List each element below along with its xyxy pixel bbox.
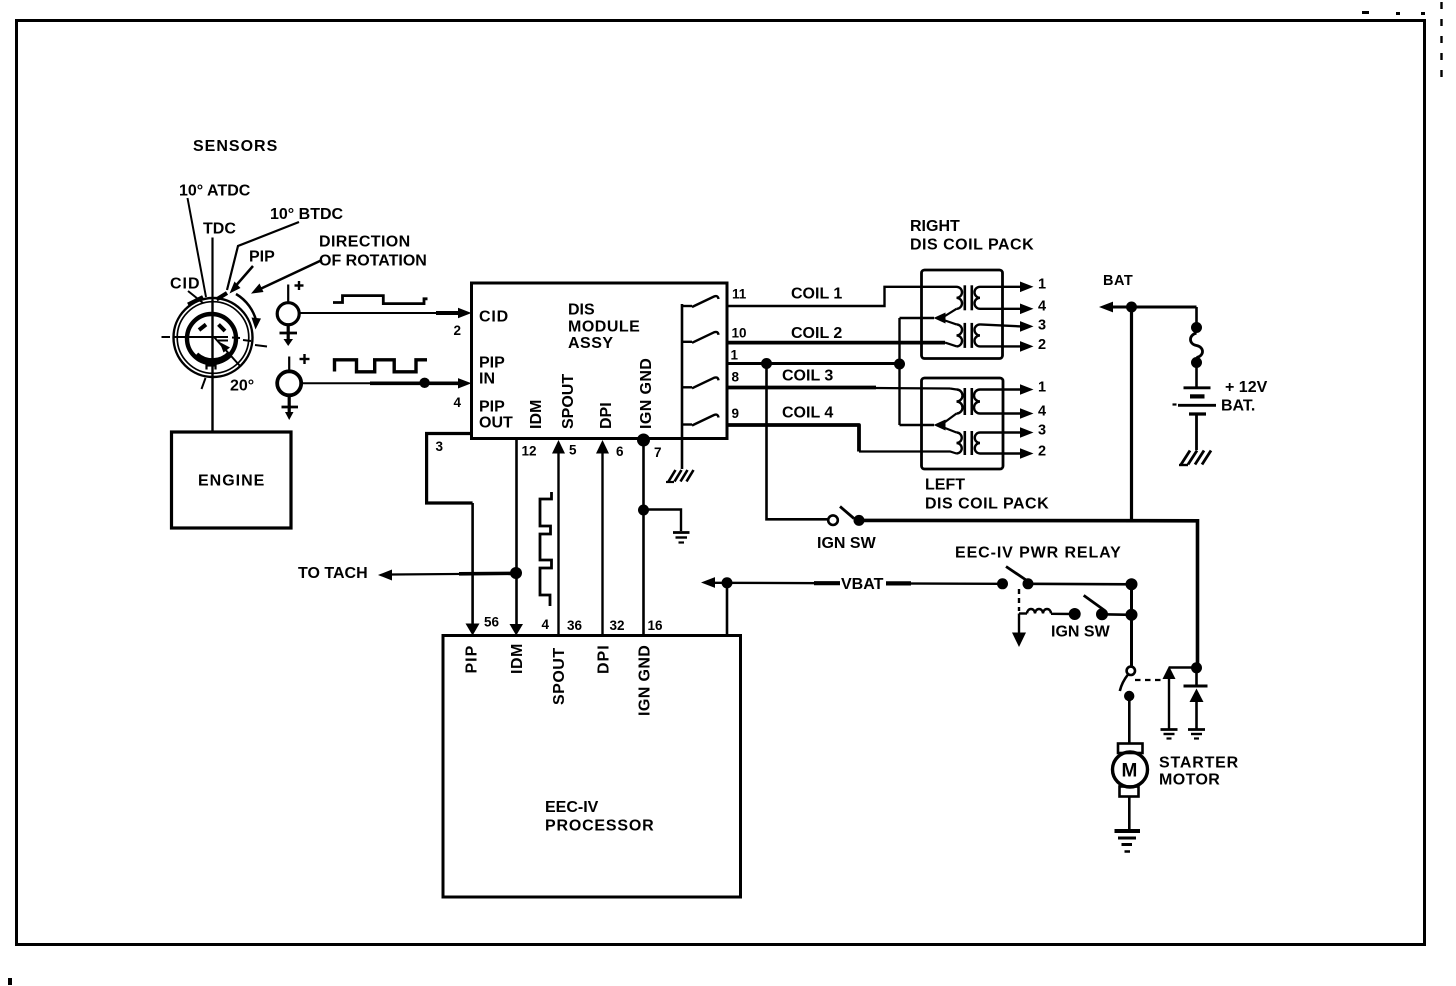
svg-text:2: 2 xyxy=(454,323,462,338)
wire IGN GND to EEC pin 16 xyxy=(642,440,645,636)
svg-text:DPI: DPI xyxy=(596,644,613,674)
pin 4 label xyxy=(454,395,462,410)
module internal driver bus xyxy=(681,304,684,469)
driver switch coil1 xyxy=(682,296,719,307)
junction VBAT/battery riser xyxy=(1126,578,1138,590)
label IGN SW 2 xyxy=(1051,624,1111,641)
label PIP xyxy=(249,249,275,266)
driver switch coil4 xyxy=(682,415,719,426)
wire common to ignition switch xyxy=(767,364,829,520)
label VBAT xyxy=(814,574,911,593)
pin 56 label xyxy=(484,615,500,630)
junction pin1/ignsw xyxy=(761,358,772,369)
pin 32 label xyxy=(610,618,625,633)
ignition switch SW1 xyxy=(828,507,864,526)
solenoid arrow xyxy=(1163,666,1197,729)
right DIS coil pack box xyxy=(922,270,1003,359)
wire switch to starter motor xyxy=(1128,696,1131,744)
left DIS coil pack box xyxy=(922,378,1004,469)
svg-text:COIL 1: COIL 1 xyxy=(791,286,842,303)
IGN GND earth ground xyxy=(673,533,690,543)
svg-text:36: 36 xyxy=(567,618,583,633)
label IGN SW xyxy=(817,535,877,552)
wire wheel to engine xyxy=(211,300,213,432)
leader CID xyxy=(188,291,203,303)
leader BTDC xyxy=(227,222,299,290)
pin 8 label xyxy=(732,370,740,385)
svg-text:PIP: PIP xyxy=(479,399,505,416)
svg-text:EEC-IV PWR RELAY: EEC-IV PWR RELAY xyxy=(955,545,1122,562)
svg-text:BAT: BAT xyxy=(1103,273,1133,289)
leader TDC xyxy=(211,238,213,301)
wheel center dash-dot axis xyxy=(162,337,268,347)
label +12V BAT xyxy=(1221,379,1268,415)
label COIL 1 xyxy=(791,286,842,303)
svg-text:TDC: TDC xyxy=(203,221,236,238)
junction tach/IDM xyxy=(510,567,522,579)
svg-text:4: 4 xyxy=(1038,299,1046,315)
junction coil / ign sw 2 xyxy=(1069,608,1081,620)
svg-text:STARTER: STARTER xyxy=(1159,755,1239,772)
svg-text:+ 12V: + 12V xyxy=(1225,379,1268,396)
label COIL 4 xyxy=(782,405,833,422)
svg-text:PROCESSOR: PROCESSOR xyxy=(545,818,654,835)
starter motor ground xyxy=(1115,831,1141,852)
wire DPI module pin 6 to EEC pin 32 xyxy=(596,440,609,636)
starter switch dashed link xyxy=(1135,679,1163,681)
svg-text:IDM: IDM xyxy=(509,643,526,674)
svg-text:3: 3 xyxy=(1038,423,1046,439)
svg-text:M: M xyxy=(1122,761,1138,782)
svg-text:OUT: OUT xyxy=(479,415,513,432)
svg-text:1: 1 xyxy=(731,348,739,363)
pin 36 label xyxy=(567,618,583,633)
svg-text:12: 12 xyxy=(522,444,537,459)
svg-text:IN: IN xyxy=(479,371,495,388)
label LEFT DIS COIL PACK xyxy=(925,477,1049,513)
svg-text:BAT.: BAT. xyxy=(1221,398,1255,415)
svg-text:4: 4 xyxy=(542,617,550,632)
svg-text:PIP: PIP xyxy=(249,249,275,266)
junction BAT xyxy=(1126,302,1137,313)
solenoid ground xyxy=(1161,730,1178,739)
wire PIP to module pin 4 xyxy=(302,378,472,388)
left pack output 1 xyxy=(980,380,1046,396)
svg-text:IGN SW: IGN SW xyxy=(1051,624,1111,641)
EEC-IV power relay switch K1 xyxy=(997,567,1132,590)
svg-text:3: 3 xyxy=(436,439,444,454)
wire COIL 1 (pin 11) xyxy=(727,287,957,306)
EEC-IV processor U2 xyxy=(443,636,741,898)
svg-text:PIP: PIP xyxy=(479,355,505,372)
junction IGN GND branch xyxy=(638,505,649,516)
svg-text:4: 4 xyxy=(454,395,462,410)
left pack output 3 xyxy=(980,423,1046,439)
transformer T2 (right pack bottom) xyxy=(957,323,981,348)
wire SPOUT module pin 5 to EEC pin 36 xyxy=(552,440,565,636)
svg-text:IGN GND: IGN GND xyxy=(637,645,654,716)
wire IGN GND branch to ground xyxy=(644,510,682,532)
svg-text:DIS COIL PACK: DIS COIL PACK xyxy=(910,237,1034,254)
leader arrow PIP xyxy=(230,266,254,294)
svg-text:RIGHT: RIGHT xyxy=(910,218,960,235)
starter motor M1 xyxy=(1113,744,1148,797)
PIP sensor xyxy=(277,354,309,420)
label COIL 3 xyxy=(782,368,833,385)
svg-text:7: 7 xyxy=(654,445,662,460)
right pack output 1 xyxy=(980,277,1046,293)
wire motor to ground xyxy=(1128,797,1131,830)
SPOUT waveform xyxy=(540,492,552,606)
label EEC-IV PWR RELAY xyxy=(955,545,1122,562)
svg-text:DIS COIL PACK: DIS COIL PACK xyxy=(925,496,1049,513)
svg-text:3: 3 xyxy=(1038,318,1046,334)
driver switch coil3 xyxy=(682,377,719,388)
relay coil ground arrow xyxy=(1012,614,1026,648)
node VBAT arrow xyxy=(701,577,998,588)
leader ATDC xyxy=(188,198,207,297)
svg-text:EEC-IV: EEC-IV xyxy=(545,799,599,816)
svg-text:11: 11 xyxy=(732,287,747,302)
direction of rotation arc xyxy=(236,294,261,330)
svg-text:DPI: DPI xyxy=(598,402,615,429)
svg-text:10° BTDC: 10° BTDC xyxy=(270,206,344,223)
wire CID to module pin 2 xyxy=(300,308,472,318)
transformer T1 (right pack top) xyxy=(957,285,981,310)
transformer T3 (left pack top) xyxy=(957,388,981,415)
label CID xyxy=(170,276,201,293)
pin 1 label xyxy=(731,348,739,363)
wire VBAT drop to EEC xyxy=(726,583,729,636)
DIS module assy U1 xyxy=(472,283,728,439)
label SENSORS xyxy=(193,138,278,155)
wire COIL 3 (pin 8) xyxy=(727,388,957,390)
wire ign sw to starter branch xyxy=(864,520,1198,668)
svg-text:SENSORS: SENSORS xyxy=(193,138,278,155)
pin 5 label xyxy=(569,443,577,458)
leader arrow DIRECTION xyxy=(251,260,322,294)
svg-text:20°: 20° xyxy=(230,378,254,395)
svg-text:SPOUT: SPOUT xyxy=(551,647,568,705)
svg-text:5: 5 xyxy=(569,443,577,458)
svg-text:ENGINE: ENGINE xyxy=(198,473,265,490)
label TO TACH xyxy=(298,565,368,582)
transformer T4 (left pack bottom) xyxy=(957,431,981,455)
wire COIL 2 (pin 10) xyxy=(727,343,957,347)
wire IDM to EEC pin 4 xyxy=(510,439,524,636)
svg-text:SPOUT: SPOUT xyxy=(560,374,577,429)
20 degree index line xyxy=(202,337,241,389)
left pack common arrow xyxy=(934,414,957,433)
pin 3 label xyxy=(436,439,444,454)
svg-text:PIP: PIP xyxy=(464,645,481,674)
svg-text:LEFT: LEFT xyxy=(925,477,965,494)
relay armature dashed link xyxy=(1018,589,1020,611)
svg-text:IDM: IDM xyxy=(528,400,545,429)
wire riser to starter switch xyxy=(1130,584,1133,667)
right pack output 4 xyxy=(980,299,1046,315)
PIP waveform xyxy=(335,360,428,372)
svg-text:ASSY: ASSY xyxy=(568,335,614,352)
svg-text:16: 16 xyxy=(648,618,664,633)
pin 16 label xyxy=(648,618,664,633)
label 10 ATDC xyxy=(179,183,251,200)
ENGINE box xyxy=(172,432,292,528)
junction VBAT to EEC xyxy=(722,577,733,588)
svg-text:56: 56 xyxy=(484,615,500,630)
label DIRECTION OF ROTATION xyxy=(319,234,427,270)
svg-text:COIL 2: COIL 2 xyxy=(791,325,842,342)
CID waveform xyxy=(333,296,428,304)
label STARTER MOTOR xyxy=(1159,755,1239,789)
svg-text:6: 6 xyxy=(616,444,624,459)
driver switch coil2 xyxy=(682,332,719,343)
module driver ground (hatched) xyxy=(666,470,694,482)
pin 4 (EEC) label xyxy=(542,617,550,632)
diode ground xyxy=(1188,730,1205,739)
svg-text:VBAT: VBAT xyxy=(841,576,884,593)
starter relay switch xyxy=(1120,667,1135,702)
svg-text:4: 4 xyxy=(1038,404,1046,420)
svg-text:IGN SW: IGN SW xyxy=(817,535,877,552)
pin 2 label xyxy=(454,323,462,338)
left pack output 2 xyxy=(980,444,1046,460)
svg-text:TO TACH: TO TACH xyxy=(298,565,368,582)
svg-text:1: 1 xyxy=(1038,277,1046,293)
pin 7 label xyxy=(654,445,662,460)
junction pin1/packs xyxy=(894,359,905,370)
svg-text:CID: CID xyxy=(479,309,509,326)
wire coil common (pin 1) xyxy=(727,362,900,365)
wire PIP to EEC pin 56 xyxy=(466,503,480,636)
svg-text:CID: CID xyxy=(170,276,201,293)
junction IGN GND at module pin 7 xyxy=(637,434,650,447)
node BAT arrow xyxy=(1099,302,1197,313)
wire COIL 4 (pin 9) xyxy=(727,425,957,454)
wire common riser between packs xyxy=(900,318,935,425)
svg-text:MODULE: MODULE xyxy=(568,319,640,336)
label RIGHT DIS COIL PACK xyxy=(910,218,1034,254)
svg-text:10: 10 xyxy=(732,326,747,341)
crank sensor wheel xyxy=(174,293,253,377)
junction ign sw 2 / battery riser xyxy=(1126,609,1138,621)
svg-text:OF ROTATION: OF ROTATION xyxy=(319,253,427,270)
label COIL 2 xyxy=(791,325,842,342)
junction on PIP wire xyxy=(419,378,429,388)
right pack output 3 xyxy=(980,318,1046,334)
svg-text:COIL 4: COIL 4 xyxy=(782,405,833,422)
junction starter branch xyxy=(1191,662,1202,673)
left pack output 4 xyxy=(980,404,1046,420)
pin 6 label xyxy=(616,444,624,459)
svg-text:32: 32 xyxy=(610,618,625,633)
relay coil K1 xyxy=(1019,609,1075,614)
wire to tach xyxy=(378,570,519,581)
CID sensor xyxy=(277,281,303,346)
pin 11 label xyxy=(732,287,747,302)
svg-text:8: 8 xyxy=(732,370,740,385)
svg-text:DIS: DIS xyxy=(568,302,595,319)
pin 12 label xyxy=(522,444,537,459)
wire pin 3 PIP OUT loop xyxy=(427,434,473,504)
svg-text:DIRECTION: DIRECTION xyxy=(319,234,411,251)
svg-text:9: 9 xyxy=(732,406,740,421)
svg-text:MOTOR: MOTOR xyxy=(1159,772,1220,789)
svg-text:COIL 3: COIL 3 xyxy=(782,368,833,385)
diode D1 xyxy=(1184,668,1208,729)
label BAT xyxy=(1103,273,1133,289)
svg-text:IGN GND: IGN GND xyxy=(638,358,655,429)
svg-text:2: 2 xyxy=(1038,444,1046,460)
ignition switch SW2 xyxy=(1084,595,1132,620)
svg-text:1: 1 xyxy=(1038,380,1046,396)
label TDC xyxy=(203,221,236,238)
pin 10 label xyxy=(732,326,747,341)
fusible link F1 xyxy=(1191,307,1203,387)
right pack common arrow xyxy=(934,309,957,325)
right pack output 2 xyxy=(980,337,1046,353)
pin 9 label xyxy=(732,406,740,421)
svg-text:2: 2 xyxy=(1038,337,1046,353)
label 20 degrees xyxy=(230,378,254,395)
battery ground (hatched) xyxy=(1179,451,1211,466)
battery B1 +12V xyxy=(1173,388,1217,450)
svg-text:10° ATDC: 10° ATDC xyxy=(179,183,251,200)
wire BAT down to relay area xyxy=(1130,307,1133,521)
label 10 BTDC xyxy=(270,206,344,223)
